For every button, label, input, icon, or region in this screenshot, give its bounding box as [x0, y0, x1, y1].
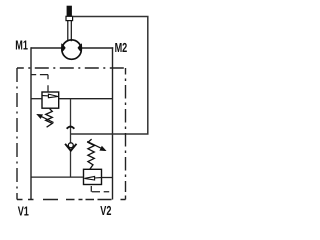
motor U1: shaft coupling box — [66, 16, 73, 20]
svg-text:V1: V1 — [18, 204, 29, 219]
motor U1: right port triangle — [78, 43, 83, 52]
adjustment arrow RV2 — [87, 141, 101, 148]
relief valve RV1: body box — [42, 92, 59, 108]
motor U1: shaft double line — [68, 21, 72, 42]
wire: check valve vertical line — [70, 99, 72, 178]
adjustment arrow RV1 — [42, 117, 54, 123]
relief valve RV2: body box — [84, 169, 102, 184]
enclosure: valve block boundary bottom edge (dash-dot) — [17, 199, 126, 201]
enclosure: valve block boundary right edge (dash-dot) — [125, 68, 127, 200]
spring RV2 — [88, 139, 94, 169]
motor U1: shaft end black block — [67, 6, 72, 17]
wire: right riser M2-V2 — [112, 47, 114, 199]
check valve CV1: ball — [68, 143, 73, 148]
wire: M1 port horizontal — [31, 47, 63, 49]
motor U1: left port triangle — [61, 43, 66, 52]
svg-text:M1: M1 — [15, 38, 28, 53]
svg-text:M2: M2 — [115, 40, 128, 55]
wire: RV2 output to left riser — [31, 176, 84, 178]
relief valve RV2: internal arrow — [94, 177, 101, 179]
wire: M2 port horizontal — [80, 47, 113, 49]
flow arrow (chevron) on check line — [67, 127, 75, 129]
check valve CV1: seat — [65, 144, 76, 151]
pilot line RV2 (dashed) — [91, 186, 109, 192]
enclosure: valve block boundary top edge (dash-dot) — [17, 67, 126, 69]
pilot line RV1 (dashed) — [31, 75, 48, 92]
wire: RV1 output to right riser — [59, 98, 113, 100]
spring RV1 — [46, 109, 53, 128]
relief valve RV1: internal arrow — [43, 95, 49, 97]
wire: case drain from shaft right, down right side, to check valve node — [71, 17, 148, 135]
motor U1: hydraulic motor circle — [62, 40, 81, 59]
wire: RV1 input from left riser — [31, 98, 42, 100]
wire: left riser M1-V1 — [30, 47, 32, 199]
wire: RV2 input from right riser — [102, 177, 114, 179]
enclosure: valve block boundary left edge (dash-dot) — [16, 68, 18, 200]
svg-text:V2: V2 — [100, 203, 111, 218]
